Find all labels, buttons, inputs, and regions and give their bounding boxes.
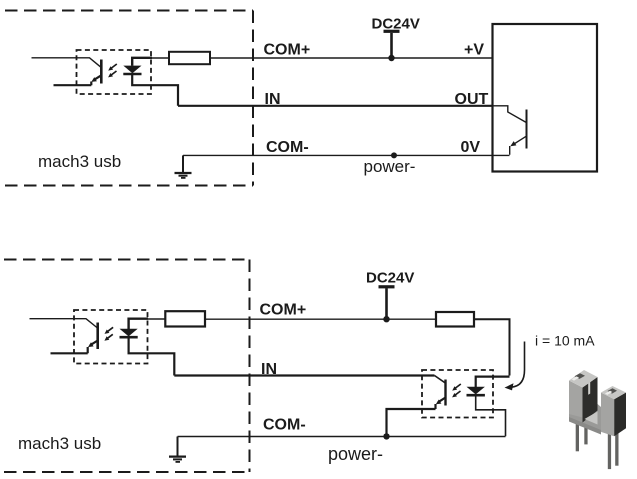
LED D2 cathode bar [120,336,138,339]
transistor bar U1 [100,60,103,84]
wire: U1 LED anode (top) [132,58,152,66]
U1 light arrow 1 [112,64,117,68]
sensor bridge front face [569,417,601,435]
curved annotation arrow [510,342,525,388]
U3 emitter arrowhead [436,400,442,405]
resistor R2 [165,311,205,326]
svg-text:+V: +V [464,42,484,59]
wire: U2 LED cathode to IN line [129,338,175,375]
resistor R1 [169,52,210,64]
sensor pin L2 [584,420,587,444]
wire COM+ line (circuit 2) [205,318,436,320]
sensor right tower dark side [614,393,626,437]
wire: U2 phototransistor collector lead [30,319,98,328]
mach3 usb board dashed box (bottom circuit) [4,260,250,473]
wire: U3 phototransistor collector lead [435,376,446,384]
U3 light arrow 2 [455,391,460,395]
U2 light arrow 2 [108,334,113,338]
svg-text:mach3 usb: mach3 usb [18,434,101,453]
wire: U3 LED cathode to COM- [476,396,506,436]
svg-text:i = 10 mA: i = 10 mA [535,333,595,349]
ground symbol GND1 [182,155,184,172]
svg-text:IN: IN [261,361,277,378]
resistor R3 [436,312,474,327]
wire: U1 phototransistor collector lead (top-left) [32,58,102,68]
sensor right tower top dark mark [608,388,618,393]
wire COM- line (circuit 1) [183,154,510,156]
U1 emitter arrowhead [91,77,97,82]
sensor left tower front face [569,381,583,418]
U1 light arrow 2 [111,71,116,75]
wire: U1 phototransistor emitter lead (bottom-left) [54,75,102,85]
optocoupler U3 dashed box (sensor side) [422,370,493,418]
transistor bar U3 [444,380,446,406]
U2 emitter arrowhead [88,342,94,347]
sensor slot floor [585,412,598,425]
wire COM- line (circuit 2) [178,436,506,438]
wire: U1 LED cathode to IN line [132,75,178,106]
sensor right tower front face [601,393,614,437]
U3 light arrow 1 [456,384,461,388]
sensor left tower top face [569,370,598,388]
sensor right tower top light mark [605,391,612,395]
sensor pin R1 [608,434,611,469]
svg-text:power-: power- [328,444,383,464]
svg-text:COM+: COM+ [260,302,307,319]
svg-text:COM-: COM- [266,139,309,156]
sensor slit in dark wall [588,379,590,395]
svg-text:0V: 0V [461,139,481,156]
svg-text:COM+: COM+ [264,42,311,59]
sensor slot dark wall [583,377,598,423]
optocoupler U1 dashed box [77,50,152,94]
sensor right tower top face [601,386,626,399]
ground symbol GND2 [177,437,179,457]
LED D2 triangle [120,329,138,337]
sensor left tower top light mark [572,376,580,380]
sensor pin R2 [615,431,618,466]
wire: U3 emitter lead to COM- [387,398,446,437]
sensor pin L1 [576,414,579,451]
svg-text:IN: IN [265,91,281,108]
junction dot DC24V/COM+ [388,55,394,61]
wire: U3 LED anode from resistor [476,377,510,387]
LED D1 (in U1) triangle [123,66,141,74]
junction dot DC24V/COM+ (circuit 2) [383,316,389,322]
mach3 usb board dashed box (top circuit) [5,11,253,186]
svg-text:OUT: OUT [455,91,489,108]
photo interrupter sensor (raster-style drawing) [569,370,626,469]
optocoupler U2 dashed box [74,310,148,364]
svg-text:power-: power- [364,157,416,176]
sensor left tower top dark mark [575,373,586,379]
wire from R3 down to sensor LED [474,319,510,375]
svg-text:DC24V: DC24V [366,270,414,287]
wire: U2 emitter lead [51,341,98,354]
svg-text:COM-: COM- [263,417,306,434]
wire IN line (circuit 2) [174,374,434,376]
transistor Q1 (inside solid box) [493,106,527,123]
junction dot power- (circuit 1) [391,152,397,158]
wire IN line (circuit 1) [178,105,493,107]
junction dot COM-/emitter (circuit 2) [383,433,389,439]
wire COM+ line (circuit 1) [210,57,493,59]
LED D3 triangle [467,387,485,395]
LED D3 cathode bar [467,394,485,397]
Q1 emitter with arrow [510,136,527,155]
wire: U2 LED anode [129,319,148,329]
LED D1 cathode bar [123,73,141,76]
Q1 bar [526,110,528,149]
svg-text:mach3 usb: mach3 usb [38,152,121,171]
transistor bar U2 [96,323,99,350]
U2 light arrow 1 [108,327,113,331]
sensor slot backdrop [569,404,601,434]
output device solid box [493,24,598,172]
